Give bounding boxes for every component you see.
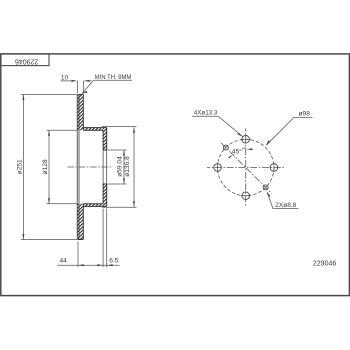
bolt hole E bbox=[270, 164, 278, 172]
dimension: diameter 136.8 bbox=[102, 126, 137, 207]
svg-text:ø59.04: ø59.04 bbox=[116, 156, 123, 177]
label 4X13.3 with leader bbox=[192, 116, 242, 136]
svg-text:MIN TH. 9MM: MIN TH. 9MM bbox=[95, 74, 132, 81]
svg-text:10: 10 bbox=[61, 75, 69, 82]
hat cylinder outer line top bbox=[83, 127, 106, 129]
dimension: 44 bbox=[57, 209, 119, 268]
svg-text:ø251: ø251 bbox=[16, 159, 23, 174]
svg-text:ø128: ø128 bbox=[42, 159, 49, 174]
label diameter 98 with leader bbox=[266, 117, 312, 145]
bore left edge-on line bbox=[102, 150, 104, 184]
small hole NW bbox=[223, 145, 228, 150]
disc right face top part bbox=[82, 95, 84, 131]
45 degree dimension bbox=[232, 148, 246, 154]
title box top-left bbox=[1, 54, 49, 66]
hub plate right edge bottom bbox=[106, 184, 108, 206]
vertical centerline bbox=[245, 129, 247, 207]
svg-text:45°: 45° bbox=[232, 148, 242, 156]
dimension: 10 (disc thickness) bbox=[61, 81, 92, 93]
dimension: diameter 128 bbox=[47, 130, 78, 204]
hub plate right edge top bbox=[106, 128, 108, 150]
svg-text:2Xø8.8: 2Xø8.8 bbox=[275, 202, 296, 209]
note: MIN TH. 9MM with leader bbox=[82, 80, 132, 93]
disc chamfer circle line bbox=[78, 95, 80, 239]
label 2X8.8 with leader bbox=[267, 192, 298, 208]
svg-text:44: 44 bbox=[60, 258, 68, 265]
hat cylinder inner line top bbox=[83, 129, 103, 131]
svg-text:ø136.8: ø136.8 bbox=[124, 156, 131, 177]
section centerline bbox=[68, 166, 114, 168]
dimension: diameter 59.04 bbox=[108, 150, 127, 184]
bore bottom edge bbox=[103, 183, 107, 185]
dimension: diameter 251 bbox=[21, 95, 77, 240]
svg-text:ø98: ø98 bbox=[299, 111, 311, 118]
diagonal centerline NW-SE bbox=[220, 142, 272, 194]
bolt hole S bbox=[242, 192, 250, 200]
bore right edge-on line bbox=[106, 150, 108, 184]
disc bottom edge bbox=[78, 239, 84, 241]
bolt circle diameter 98 (dashed) bbox=[218, 139, 274, 195]
border frame bbox=[1, 54, 350, 296]
svg-text:6.5: 6.5 bbox=[109, 258, 118, 265]
hat cylinder inner line bottom bbox=[83, 203, 103, 205]
bolt hole N bbox=[242, 136, 250, 144]
hub plate left edge top bbox=[102, 130, 104, 150]
small hole SE bbox=[263, 185, 268, 190]
hat cylinder outer line bottom bbox=[83, 205, 106, 207]
bolt hole W bbox=[214, 164, 222, 172]
svg-text:229046: 229046 bbox=[313, 261, 336, 268]
disc right face bottom part bbox=[82, 204, 84, 240]
svg-text:229046: 229046 bbox=[15, 57, 38, 64]
hub plate left edge bottom bbox=[102, 184, 104, 204]
bore top edge bbox=[103, 149, 107, 151]
horizontal centerline bbox=[207, 167, 284, 169]
disc top edge bbox=[78, 94, 84, 96]
svg-text:4Xø13.3: 4Xø13.3 bbox=[194, 110, 218, 117]
disc outline left face bbox=[76, 95, 78, 238]
